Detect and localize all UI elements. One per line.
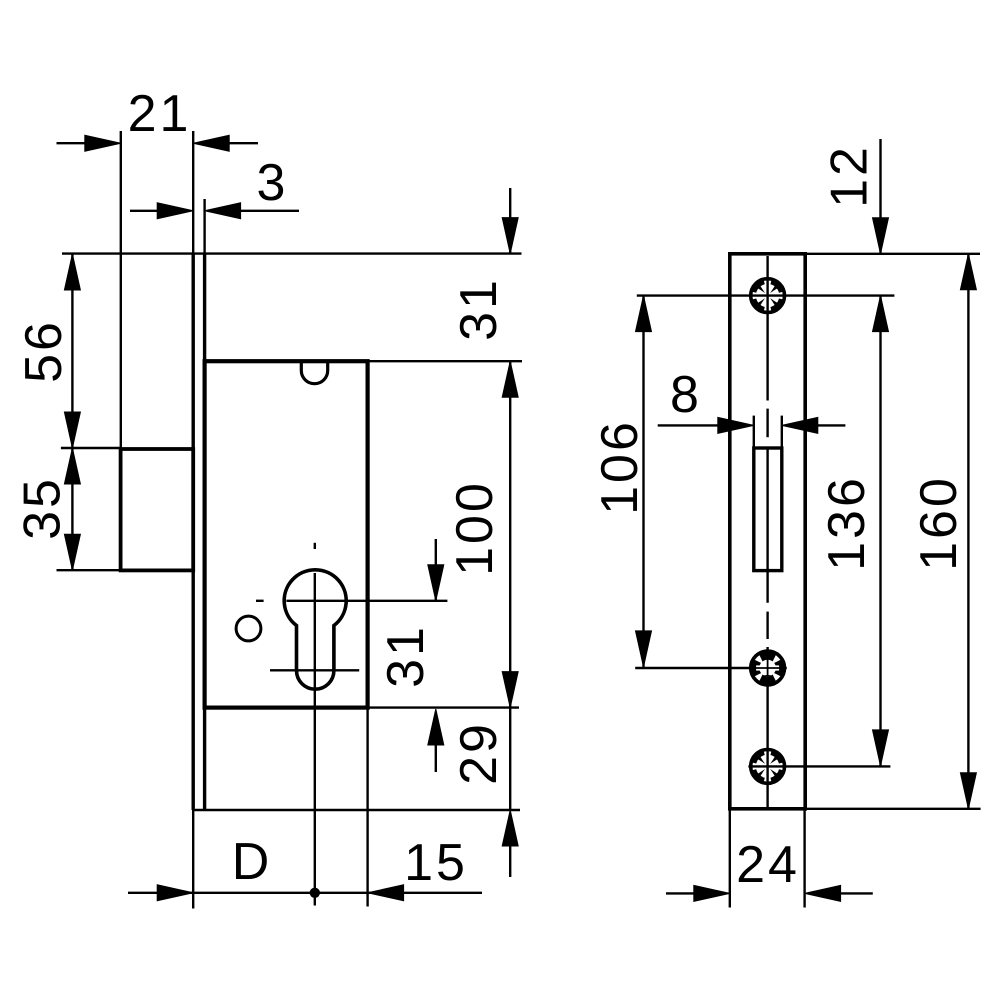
dim 21 dimension line left tail <box>57 142 86 144</box>
dim 8 extension right <box>781 416 783 447</box>
dim 56 arrow top <box>64 254 80 290</box>
latch slot <box>754 448 782 571</box>
bottom dimension line D / 15 <box>128 892 482 894</box>
dim 56/35 dimension line <box>71 254 73 570</box>
bottom extension case edge <box>366 708 368 907</box>
faceplate bottom extension <box>193 809 520 811</box>
dim 8 arrow left <box>718 417 754 433</box>
dim 160 arrow bottom <box>960 773 976 809</box>
svg-text:21: 21 <box>128 85 192 143</box>
dim 24 extension right <box>803 809 805 908</box>
svg-text:D: D <box>232 833 273 891</box>
dim 21 dimension line right tail <box>229 142 258 144</box>
top extension line <box>62 252 522 254</box>
dim 100 arrow bottom <box>502 672 518 708</box>
case bottom extension <box>368 706 519 708</box>
deadbolt protrusion <box>121 449 194 570</box>
svg-text:29: 29 <box>450 721 508 785</box>
dim 35 extension bottom <box>57 569 121 571</box>
faceplate vertical centerline dash <box>766 409 768 438</box>
svg-text:12: 12 <box>821 144 879 208</box>
svg-text:56: 56 <box>15 319 73 383</box>
dim 106 arrow top <box>636 296 652 332</box>
cylinder vertical centerline dash <box>314 543 316 549</box>
euro profile cylinder hole <box>284 570 346 689</box>
dim 56 extension mid <box>61 447 121 449</box>
dim 24 dimension line right tail <box>839 892 873 894</box>
reference line below cylinder <box>270 669 359 671</box>
faceplate top extension <box>805 253 980 255</box>
cylinder horizontal centerline <box>286 600 447 602</box>
cylinder horizontal centerline dash <box>256 600 264 602</box>
svg-text:136: 136 <box>818 475 876 571</box>
dim 100 arrow top <box>502 361 518 397</box>
lock faceplate (side view, double line) <box>193 254 204 810</box>
dim 56 arrow bottom <box>64 412 80 448</box>
svg-text:35: 35 <box>14 476 72 540</box>
dim 106 arrow bottom <box>636 631 652 667</box>
svg-text:31: 31 <box>377 624 435 688</box>
faceplate vertical centerline dash2 <box>766 612 768 639</box>
dim 106 line <box>642 296 644 667</box>
svg-text:8: 8 <box>670 366 702 424</box>
dim 35 arrow top <box>64 448 80 484</box>
lock case body <box>205 361 368 707</box>
dim 3 arrow right <box>205 203 241 219</box>
dim 3 dimension line right tail <box>239 210 299 212</box>
dim 31 inner arrow top <box>428 565 444 601</box>
dim 3 arrow left <box>157 203 193 219</box>
dim 136 arrow bottom <box>873 730 889 766</box>
dim 8 extension left <box>753 416 755 447</box>
dim 29 arrow bottom <box>502 810 518 846</box>
faceplate vertical centerline seg1 <box>766 256 768 401</box>
bottom extension faceplate <box>192 810 194 909</box>
follower notch semicircle at case top <box>301 362 327 384</box>
small fixing hole <box>236 616 261 641</box>
svg-text:106: 106 <box>591 419 649 515</box>
dim 29 line <box>509 708 511 810</box>
dim 31 top-right line <box>509 188 511 254</box>
dim 31 inner arrow bottom <box>428 709 444 745</box>
svg-text:3: 3 <box>257 154 289 212</box>
dim 31 top-right arrow <box>502 218 518 254</box>
dim 8 arrow right <box>782 417 818 433</box>
dim 21 arrow right <box>193 135 229 151</box>
svg-text:15: 15 <box>404 834 468 892</box>
case top extension <box>368 360 522 362</box>
dim 24 arrow right <box>805 885 841 901</box>
dim 15 arrow right <box>368 885 404 901</box>
dim 24 arrow left <box>694 885 730 901</box>
middle screw centerline horizontal <box>635 667 787 669</box>
dim 136 line <box>879 296 881 766</box>
striking faceplate front view <box>730 254 805 809</box>
cylinder vertical centerline <box>314 573 316 906</box>
dim 3 dimension line left tail <box>130 210 159 212</box>
svg-text:24: 24 <box>736 836 800 894</box>
dim 12 line <box>879 139 881 254</box>
dim 100 line <box>509 361 511 707</box>
bottom screw centerline horizontal <box>748 765 890 767</box>
svg-text:100: 100 <box>446 480 504 576</box>
dim 24 extension left <box>729 809 731 908</box>
dim 35 arrow bottom <box>64 534 80 570</box>
dim 8 dimension line left tail <box>658 424 720 426</box>
svg-text:160: 160 <box>910 475 968 571</box>
dim 24 dimension line left tail <box>666 892 696 894</box>
dim 21 arrow left <box>85 135 121 151</box>
top screw centerline horizontal <box>637 294 895 296</box>
dim 21 extension left <box>120 131 122 448</box>
dim 136 arrow top <box>873 296 889 332</box>
dim D arrow left <box>157 885 193 901</box>
bottom screw <box>751 750 785 784</box>
dim 12 arrow top <box>873 218 889 254</box>
svg-text:31: 31 <box>450 277 508 341</box>
top screw <box>751 279 785 313</box>
dim 160 arrow top <box>960 254 976 290</box>
faceplate vertical centerline seg3 <box>766 647 768 807</box>
dim 160 line <box>967 254 969 809</box>
dim 8 dimension line right tail <box>816 424 846 426</box>
dim 31 inner line top <box>435 539 437 601</box>
dim 21 extension right <box>192 131 194 254</box>
middle screw <box>751 651 785 685</box>
dim 3 extension right <box>203 199 205 254</box>
faceplate bottom extension right <box>805 808 980 810</box>
center dot <box>310 888 320 898</box>
faceplate vertical centerline seg2 <box>766 449 768 603</box>
